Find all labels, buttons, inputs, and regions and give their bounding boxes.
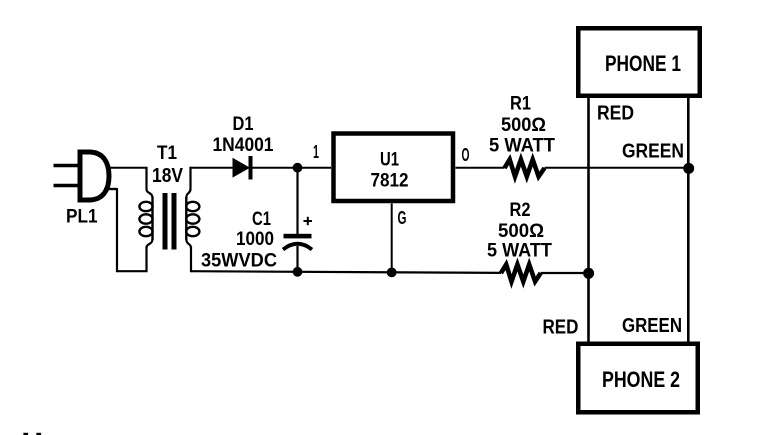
wire plug lower stub (104, 188, 117, 190)
svg-text:PHONE 2: PHONE 2 (602, 367, 680, 392)
svg-text:1000: 1000 (236, 229, 274, 250)
resistor R2 (501, 265, 541, 282)
svg-text:R2: R2 (510, 200, 531, 221)
phone 1 box (578, 28, 700, 96)
svg-text:GREEN: GREEN (622, 315, 682, 337)
svg-text:RED: RED (543, 317, 579, 339)
wire U1 output (456, 167, 505, 169)
transformer T1 secondary winding (186, 167, 199, 273)
plug PL1 prongs (54, 166, 81, 186)
svg-text:R1: R1 (510, 94, 531, 115)
svg-text:T1: T1 (157, 143, 177, 164)
svg-text:G: G (398, 207, 407, 228)
svg-text:PHONE 1: PHONE 1 (605, 51, 681, 76)
wire bottom rail (191, 271, 501, 273)
wire plug down left side (117, 188, 147, 271)
wire plug to transformer primary top (110, 167, 147, 169)
wire phone1 green lead (687, 98, 690, 342)
diode D1 (233, 156, 253, 180)
wire U1 ground pin (391, 204, 393, 273)
svg-text:1N4001: 1N4001 (213, 135, 274, 156)
svg-text:5 WATT: 5 WATT (489, 135, 555, 157)
svg-text:18V: 18V (152, 165, 184, 187)
node R1/green junction (683, 163, 694, 174)
node diode/C1/U1 input junction (293, 163, 303, 173)
cropped print artifacts bottom left (23, 433, 41, 435)
op-amp U1 regulator box (334, 134, 454, 202)
node C1 bottom junction (293, 267, 303, 277)
wire R2 to red node (541, 272, 589, 274)
phone 2 box (578, 344, 698, 413)
svg-text:D1: D1 (233, 114, 254, 135)
wire R1 to green node (545, 167, 689, 169)
svg-text:GREEN: GREEN (622, 141, 684, 163)
node U1 ground junction (387, 268, 397, 278)
svg-text:O: O (462, 145, 470, 165)
wire diode to node (253, 167, 332, 169)
capacitor C1 plus sign (304, 217, 313, 225)
svg-text:C1: C1 (252, 209, 271, 230)
svg-text:7812: 7812 (371, 170, 409, 192)
transformer T1 core (163, 193, 177, 250)
node R2/red junction (583, 268, 594, 279)
svg-text:500Ω: 500Ω (501, 114, 546, 136)
plug PL1 body (80, 152, 109, 200)
resistor R1 (505, 160, 545, 177)
transformer T1 primary winding (139, 167, 152, 248)
svg-text:5 WATT: 5 WATT (487, 240, 552, 262)
svg-text:PL1: PL1 (66, 207, 98, 228)
capacitor C1 plates (283, 234, 312, 250)
svg-text:U1: U1 (380, 149, 399, 171)
wire phone1 red lead (587, 98, 590, 342)
svg-text:35WVDC: 35WVDC (201, 250, 277, 272)
capacitor C1 bottom wire (296, 246, 298, 272)
svg-text:RED: RED (597, 103, 634, 125)
capacitor C1 top wire (296, 168, 298, 235)
wire transformer to diode (191, 167, 234, 169)
svg-text:1: 1 (313, 142, 319, 162)
